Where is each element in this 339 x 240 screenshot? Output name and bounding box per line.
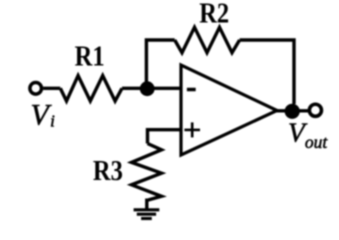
wire node A to op-amp inverting input [147,87,181,90]
wire feedback right (R2 down to output node) [240,40,294,104]
svg-text:R3: R3 [93,156,123,187]
resistor R2 [175,27,240,52]
ground [134,210,160,219]
terminal Vi (input open circle) [30,83,42,95]
op-amp U1 [181,65,277,155]
svg-text:Vi: Vi [31,98,56,131]
terminal Vout (output open circle) [309,104,321,116]
wire op-amp output [276,109,310,112]
svg-text:R1: R1 [75,41,105,72]
svg-text:R2: R2 [199,0,229,29]
resistor R3 [132,144,162,201]
wire feedback left (node A up and right to R2) [146,40,174,90]
svg-text:Vout: Vout [288,116,328,152]
wire input terminal to R1 [43,87,60,90]
wire R1 to node A [122,87,147,90]
wire R3 to ground [145,199,148,210]
minus sign (inverting input label) [187,88,196,92]
plus sign (noninverting input label) [184,122,200,137]
node Vout (output junction dot) [285,104,300,119]
resistor R1 [60,76,122,101]
node A (junction dot at inverting input) [140,81,155,96]
wire op-amp noninverting input (left and down to R3) [148,130,182,144]
